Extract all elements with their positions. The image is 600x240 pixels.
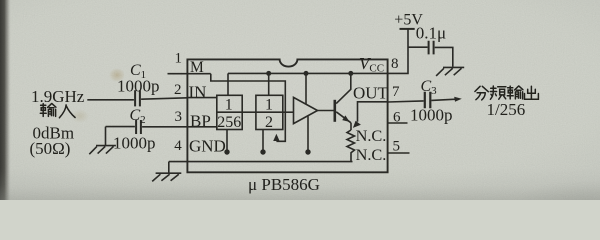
capacitor C2 plates: [136, 120, 141, 134]
pin 7 lead to C3: [388, 101, 424, 102]
C2 ground riser: [105, 127, 107, 146]
svg-text:1: 1: [265, 96, 273, 113]
svg-text:OUT: OUT: [353, 84, 389, 103]
Vcc drop to divider 1/2: [268, 73, 270, 95]
output wire with arrow: [431, 99, 456, 100]
divider block 1/256: [217, 95, 242, 129]
svg-text:μ PB586G: μ PB586G: [248, 175, 320, 194]
svg-text:N.C.: N.C.: [356, 145, 387, 164]
divider block 1/2: [256, 95, 283, 129]
svg-text:8: 8: [391, 56, 399, 72]
output arrowhead: [454, 97, 462, 102]
out-to-node arrowhead: [353, 121, 361, 128]
svg-text:6: 6: [393, 110, 401, 126]
pin4 ground riser: [168, 162, 170, 173]
bottom right corner shadow: [515, 180, 600, 224]
hanzi SHU (output word): [507, 86, 523, 99]
pin 4 / ground rail: [169, 161, 353, 163]
terminal dot below 1/2: [260, 149, 265, 154]
chinese glyph strokes: [40, 86, 538, 118]
ground symbol top right: [436, 67, 464, 76]
hanzi RU (input): [59, 105, 75, 118]
svg-text:7: 7: [392, 84, 400, 100]
hanzi PIN (frequency): [490, 86, 506, 99]
+5V terminal bar: [400, 28, 415, 30]
faint stain left of C2: [71, 109, 89, 123]
wire IN internal to divider: [187, 97, 216, 99]
buffer amplifier triangle: [294, 97, 318, 123]
junction Vcc/buffer: [304, 71, 309, 76]
stub with dot below buffer: [307, 116, 309, 149]
emitter node vertical to resistor: [350, 123, 352, 130]
wire C1 to pin2: [141, 98, 187, 99]
svg-text:1000p: 1000p: [410, 106, 453, 125]
svg-text:(50Ω): (50Ω): [30, 139, 71, 158]
pin 8 lead to +5V: [388, 29, 408, 74]
pin 2 lead (IN) input wire left segment: [87, 99, 134, 101]
terminal dot below buffer: [305, 149, 310, 154]
svg-text:1: 1: [175, 51, 183, 67]
wire 1/256 to 1/2: [242, 111, 256, 113]
svg-text:1.9GHz: 1.9GHz: [31, 87, 85, 106]
pin 1 lead (M): [168, 73, 211, 75]
capacitor 0.1u plates: [429, 41, 434, 55]
Vcc drop to divider 1/256: [227, 73, 229, 95]
stain near top left: [109, 68, 125, 82]
stub with dot below 1/256: [226, 130, 228, 150]
capacitor C1 plates: [135, 90, 140, 106]
svg-text:5: 5: [393, 139, 401, 155]
svg-text:256: 256: [217, 114, 241, 131]
wire 1/2 to buffer: [283, 111, 294, 113]
terminal dot below 1/256: [224, 149, 229, 154]
stub with dot below 1/2: [262, 130, 264, 150]
svg-text:4: 4: [174, 138, 182, 154]
page edge shadow left: [0, 0, 11, 200]
junction dots: [224, 71, 461, 155]
pin 6 lead (N.C.): [388, 122, 408, 124]
svg-text:1/256: 1/256: [487, 100, 526, 119]
svg-text:0.1μ: 0.1μ: [416, 24, 446, 43]
svg-text:2: 2: [265, 114, 273, 131]
ground symbol at C2: [89, 146, 116, 155]
junction Vcc/divider2: [266, 71, 271, 76]
hanzi SHU (input): [40, 104, 56, 117]
0.1u decoupling branch: [408, 46, 428, 48]
svg-text:BP: BP: [190, 112, 211, 131]
wire buffer to transistor base: [318, 110, 334, 112]
pin 5 lead (N.C.): [388, 152, 410, 154]
resistor R1 zigzag: [347, 130, 355, 162]
OUT internal line with drop to emitter node: [358, 102, 388, 122]
svg-text:M: M: [190, 59, 204, 76]
wire C2 to pin3/BP internal: [142, 127, 217, 130]
transistor Q1 base bar: [333, 100, 336, 122]
Vcc drop to buffer: [305, 73, 307, 104]
pin 3 lead (BP) with capacitor C2: [106, 126, 135, 128]
Vcc rail internal: [228, 72, 388, 74]
svg-text:1000p: 1000p: [113, 134, 156, 153]
bottom shadow strip: [0, 168, 600, 200]
transistor emitter: [336, 112, 351, 123]
ground symbol at pin 4: [152, 173, 181, 181]
mode select arrowhead below 1/2: [273, 134, 279, 141]
svg-text:IN: IN: [189, 82, 207, 101]
capacitor C3 plates: [425, 92, 431, 108]
svg-text:3: 3: [175, 109, 183, 125]
emitter arrowhead: [342, 115, 349, 122]
node M internal routing to mode arrow: [211, 74, 285, 142]
svg-text:1000p: 1000p: [117, 77, 160, 96]
hanzi FEN (divided): [475, 86, 488, 100]
junction Vcc/collector: [348, 71, 353, 76]
wire cap to ground: [435, 47, 453, 66]
svg-text:2: 2: [174, 82, 182, 98]
svg-text:GND: GND: [189, 137, 226, 156]
svg-text:N.C.: N.C.: [356, 126, 387, 145]
transistor collector riser to Vcc: [336, 73, 351, 103]
svg-text:1: 1: [225, 96, 233, 113]
hanzi CHU (out): [525, 86, 539, 99]
IC U1 uPB586G body outline with index notch: [187, 59, 387, 172]
